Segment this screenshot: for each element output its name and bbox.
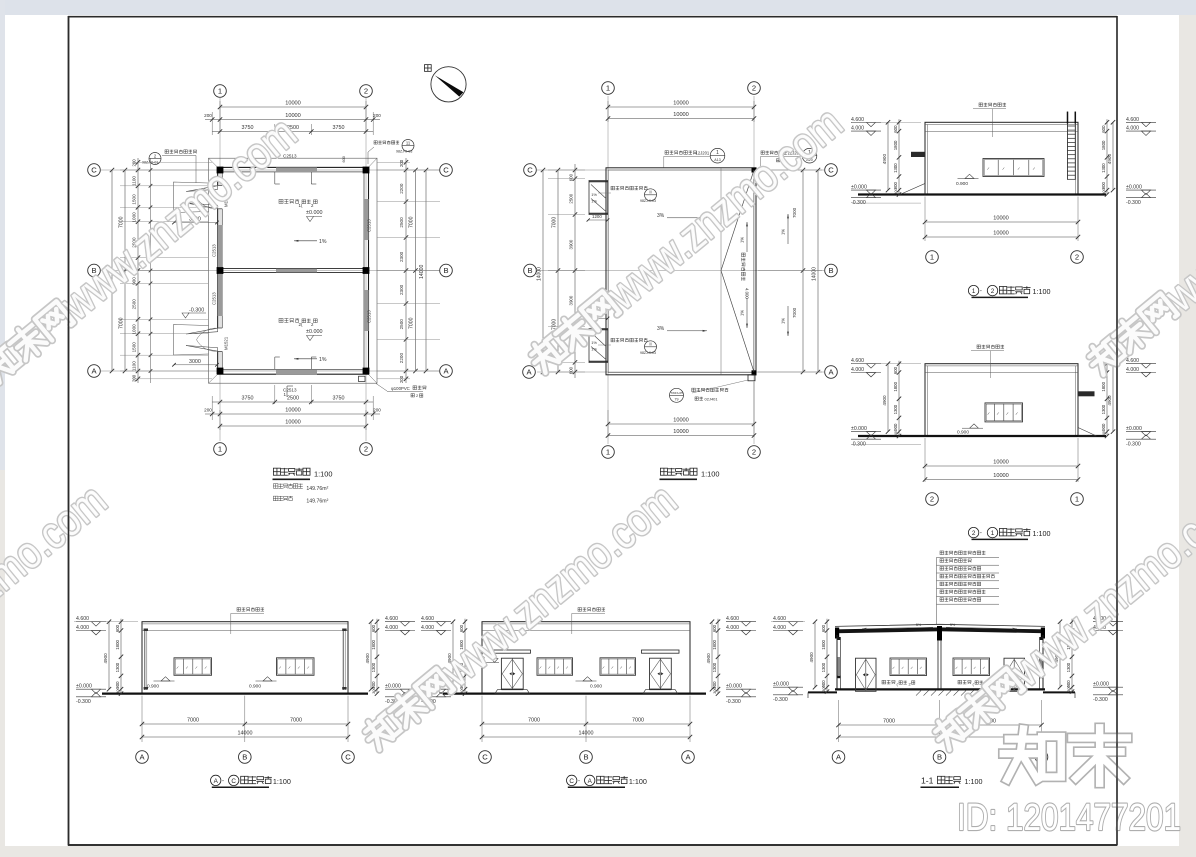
svg-text:4.000: 4.000 bbox=[851, 367, 864, 373]
elev21 sill level 0.900 bbox=[970, 424, 979, 428]
elevCA windows bbox=[537, 658, 573, 676]
floor plan bottom dimension lines bbox=[219, 410, 221, 430]
svg-text:±0.000: ±0.000 bbox=[1126, 426, 1142, 432]
svg-text:300: 300 bbox=[1101, 187, 1106, 194]
svg-text:C2513: C2513 bbox=[367, 219, 372, 232]
vent 1200 dims bbox=[588, 219, 608, 221]
svg-text:200: 200 bbox=[373, 113, 381, 118]
svg-text:φ100PVC: φ100PVC bbox=[391, 386, 410, 391]
svg-text:1:100: 1:100 bbox=[965, 777, 983, 786]
elevAC rain pipes bbox=[144, 630, 146, 690]
svg-text:900: 900 bbox=[1101, 423, 1106, 431]
roof smoke vents (hatched boxes) bbox=[589, 181, 608, 215]
svg-text:C: C bbox=[569, 778, 574, 785]
svg-text:4900: 4900 bbox=[882, 154, 887, 165]
svg-text:14000: 14000 bbox=[812, 267, 818, 281]
svg-text:10000: 10000 bbox=[285, 420, 301, 426]
elev21 bottom dims bbox=[924, 438, 926, 482]
svg-text:±0.000: ±0.000 bbox=[306, 329, 322, 335]
svg-text:4.600: 4.600 bbox=[76, 616, 89, 622]
elevAC bubbles bbox=[136, 751, 149, 764]
svg-text:2: 2 bbox=[972, 530, 976, 537]
svg-text:3750: 3750 bbox=[333, 396, 345, 402]
svg-text:4.000: 4.000 bbox=[1126, 367, 1139, 373]
svg-text:±0.000: ±0.000 bbox=[1093, 682, 1109, 688]
svg-text:7000: 7000 bbox=[792, 207, 797, 218]
svg-text:C: C bbox=[828, 166, 834, 175]
svg-text:1: 1 bbox=[716, 150, 719, 156]
room 1 labels bbox=[279, 199, 299, 203]
section ground extensions bbox=[808, 691, 837, 693]
roof rain outlet corner bbox=[748, 375, 755, 381]
bottom-right PVC pipe note bbox=[376, 384, 387, 392]
svg-text:79: 79 bbox=[675, 398, 679, 402]
svg-text:4900: 4900 bbox=[1107, 395, 1112, 406]
svg-text:7000: 7000 bbox=[792, 307, 797, 318]
section room labels bbox=[882, 680, 895, 684]
floor plan axis lines bbox=[219, 98, 221, 441]
elevAC roof leader note bbox=[237, 608, 264, 612]
section roof construction list bbox=[940, 551, 985, 555]
svg-text:4.000: 4.000 bbox=[745, 288, 750, 299]
watermark row1 middle bbox=[519, 97, 852, 384]
svg-text:2: 2 bbox=[1075, 253, 1079, 262]
svg-text:4.600: 4.600 bbox=[385, 616, 398, 622]
svg-text:10000: 10000 bbox=[673, 418, 689, 424]
svg-text:1%: 1% bbox=[319, 239, 327, 245]
svg-text:600: 600 bbox=[371, 624, 376, 632]
svg-text:1300: 1300 bbox=[821, 662, 826, 672]
columns (black squares) bbox=[217, 167, 224, 174]
svg-text:4900: 4900 bbox=[1107, 154, 1112, 165]
svg-text:3%: 3% bbox=[657, 326, 665, 332]
elev21 roof leader note bbox=[977, 345, 1004, 349]
svg-text:7000: 7000 bbox=[883, 719, 895, 725]
svg-text:4.000: 4.000 bbox=[851, 126, 864, 132]
svg-text:1: 1 bbox=[218, 445, 222, 454]
svg-text:0.900: 0.900 bbox=[249, 683, 261, 689]
watermark row1 right bbox=[1077, 99, 1196, 386]
svg-text:2: 2 bbox=[930, 495, 934, 504]
elevCA building outline bbox=[482, 622, 690, 694]
svg-text:2: 2 bbox=[991, 288, 995, 295]
section windows bbox=[890, 658, 927, 676]
roof access hatch callout (bottom) bbox=[670, 388, 684, 402]
roof left dimension chains bbox=[574, 164, 576, 378]
svg-text:200: 200 bbox=[373, 408, 381, 413]
svg-text:5%: 5% bbox=[950, 623, 956, 627]
svg-text:B: B bbox=[937, 753, 942, 762]
svg-text:3000: 3000 bbox=[189, 359, 201, 365]
svg-text:3900: 3900 bbox=[569, 239, 574, 249]
svg-text:1800: 1800 bbox=[1101, 140, 1106, 150]
svg-text:2200: 2200 bbox=[399, 353, 404, 364]
svg-text:4.600: 4.600 bbox=[773, 616, 786, 622]
watermark row2 left bbox=[0, 474, 116, 761]
svg-text:98ZJ-0-03: 98ZJ-0-03 bbox=[640, 351, 656, 355]
svg-text:2500: 2500 bbox=[399, 217, 404, 228]
svg-text:1800: 1800 bbox=[893, 381, 898, 391]
svg-text:300: 300 bbox=[115, 686, 120, 693]
svg-text:±0.000: ±0.000 bbox=[306, 210, 322, 216]
elevAC 0.900 marks bbox=[161, 677, 170, 681]
svg-text:5%: 5% bbox=[916, 623, 922, 627]
svg-text:600: 600 bbox=[342, 156, 346, 162]
svg-text:3%: 3% bbox=[657, 213, 665, 219]
svg-text:1%: 1% bbox=[591, 340, 597, 345]
svg-text:C: C bbox=[231, 778, 236, 785]
top-right rain callout bbox=[374, 141, 399, 145]
roof right dimension chains bbox=[802, 170, 804, 372]
svg-text:4900: 4900 bbox=[365, 653, 370, 664]
svg-text:4.000: 4.000 bbox=[385, 625, 398, 631]
elevCA door sills bbox=[495, 690, 530, 694]
floor plan axis bubbles bbox=[214, 85, 227, 98]
roof top leader callouts bbox=[665, 151, 697, 155]
svg-text:200: 200 bbox=[399, 159, 404, 167]
svg-text:-0.300: -0.300 bbox=[726, 699, 741, 705]
svg-text:600: 600 bbox=[893, 125, 898, 133]
elev12 building outline bbox=[925, 122, 1078, 194]
svg-text:2500: 2500 bbox=[132, 299, 137, 310]
svg-text:2300: 2300 bbox=[399, 251, 404, 262]
elev21 ground line bbox=[858, 435, 1106, 437]
section underfloor hatch bbox=[916, 691, 921, 696]
svg-text:4.000: 4.000 bbox=[773, 625, 786, 631]
svg-text:1500: 1500 bbox=[132, 342, 137, 353]
elev21 building outline bbox=[925, 364, 1078, 436]
svg-text:10000: 10000 bbox=[673, 112, 689, 118]
svg-text:600: 600 bbox=[1101, 125, 1106, 133]
elev21 title bbox=[968, 527, 978, 537]
svg-text:C: C bbox=[482, 753, 488, 762]
svg-text:-: - bbox=[980, 289, 982, 295]
svg-text:2500: 2500 bbox=[569, 193, 574, 203]
svg-text:10000: 10000 bbox=[285, 408, 301, 414]
elevCA title bbox=[567, 775, 577, 785]
svg-text:14000: 14000 bbox=[238, 731, 253, 737]
svg-text:1-1: 1-1 bbox=[921, 775, 934, 785]
svg-text:10000: 10000 bbox=[285, 101, 301, 107]
svg-text:B: B bbox=[583, 753, 588, 762]
svg-text:1300: 1300 bbox=[893, 163, 898, 173]
svg-text:C: C bbox=[91, 166, 97, 175]
svg-text:1100: 1100 bbox=[132, 361, 137, 371]
elev12 bubbles bbox=[926, 251, 939, 264]
roof bottom dimensions bbox=[607, 410, 609, 437]
svg-text:600: 600 bbox=[569, 366, 574, 374]
svg-text:0.900: 0.900 bbox=[590, 683, 602, 689]
svg-text:0.900: 0.900 bbox=[147, 683, 159, 689]
svg-text:1200: 1200 bbox=[592, 214, 602, 219]
left extension lines bbox=[120, 169, 208, 171]
svg-text:4.600: 4.600 bbox=[851, 117, 864, 123]
svg-text:C2513: C2513 bbox=[212, 244, 217, 257]
svg-text:1300: 1300 bbox=[115, 662, 120, 672]
section bubbles bbox=[832, 751, 845, 764]
svg-text:1: 1 bbox=[218, 87, 222, 96]
svg-text:98ZJ-0-03: 98ZJ-0-03 bbox=[396, 150, 412, 154]
svg-text:2500: 2500 bbox=[287, 396, 299, 402]
section middle wall bbox=[937, 640, 939, 689]
floor plan left dimension chains bbox=[137, 158, 139, 383]
svg-text:-0.300: -0.300 bbox=[1093, 697, 1108, 703]
svg-text:10000: 10000 bbox=[673, 101, 689, 107]
svg-text:300: 300 bbox=[1066, 684, 1071, 691]
floor plan title bbox=[273, 468, 310, 476]
section walls bbox=[836, 635, 838, 689]
svg-text:200: 200 bbox=[132, 374, 137, 382]
svg-text:10000: 10000 bbox=[993, 473, 1009, 479]
svg-text:4.600: 4.600 bbox=[1126, 358, 1139, 364]
svg-text:14000: 14000 bbox=[537, 267, 543, 281]
roof outline with parapet double line bbox=[606, 168, 756, 375]
svg-text:4900: 4900 bbox=[706, 653, 711, 664]
elev12 left canopy bbox=[911, 152, 925, 157]
svg-text:1%: 1% bbox=[319, 357, 327, 363]
svg-text:2: 2 bbox=[752, 448, 756, 457]
svg-text:1300: 1300 bbox=[1101, 404, 1106, 414]
roof structural level note (rotated) bbox=[741, 253, 745, 281]
svg-text:±0.000: ±0.000 bbox=[726, 684, 742, 690]
elev12 sill level 0.900 bbox=[965, 174, 974, 178]
svg-text:10000: 10000 bbox=[993, 231, 1009, 237]
svg-text:7000: 7000 bbox=[119, 216, 125, 228]
svg-text:-: - bbox=[980, 531, 982, 537]
svg-text:300: 300 bbox=[893, 187, 898, 194]
svg-text:600: 600 bbox=[569, 173, 574, 181]
svg-text:1100: 1100 bbox=[132, 176, 137, 186]
roof plan axis lines bbox=[607, 96, 609, 444]
drawing frame border bbox=[68, 16, 70, 846]
svg-text:98ZJ-0-03: 98ZJ-0-03 bbox=[640, 199, 656, 203]
svg-text:200: 200 bbox=[204, 408, 212, 413]
floor plan outer walls (double line) bbox=[218, 167, 369, 374]
elevCA 0.900 mark bbox=[583, 677, 592, 681]
svg-text:1:100: 1:100 bbox=[1033, 529, 1051, 538]
svg-text:C2513: C2513 bbox=[367, 310, 372, 323]
elevCA door canopies bbox=[493, 650, 531, 653]
svg-text:3900: 3900 bbox=[569, 295, 574, 305]
roof slope 1% vertical arrows bbox=[746, 222, 748, 252]
znzmo logo (bottom right) bbox=[1003, 729, 1061, 779]
svg-text:200: 200 bbox=[132, 159, 137, 167]
svg-text:TWFb-65: TWFb-65 bbox=[670, 391, 683, 395]
roof axis bubbles bbox=[602, 82, 615, 95]
svg-text:1300: 1300 bbox=[893, 404, 898, 414]
top-left detail callout bbox=[149, 153, 161, 165]
svg-text:2500: 2500 bbox=[399, 319, 404, 330]
svg-text:1000: 1000 bbox=[132, 324, 137, 335]
elev21 base ramp (right side) bbox=[1078, 428, 1097, 437]
svg-text:-0.300: -0.300 bbox=[851, 200, 866, 206]
svg-text:600: 600 bbox=[115, 624, 120, 632]
window centre bracket marks top/bottom bbox=[274, 172, 276, 184]
frame lines redrawn over watermark bbox=[1116, 16, 1118, 846]
svg-text:1800: 1800 bbox=[115, 640, 120, 650]
svg-text:-0.300: -0.300 bbox=[76, 699, 91, 705]
svg-text:1: 1 bbox=[991, 530, 995, 537]
svg-text:900: 900 bbox=[893, 182, 898, 190]
svg-text:1800: 1800 bbox=[821, 640, 826, 650]
elevAC ground line bbox=[102, 692, 368, 694]
door openings with leaves (M1521) left wall bbox=[174, 182, 209, 213]
svg-text:1%: 1% bbox=[591, 199, 597, 204]
svg-text:4.600: 4.600 bbox=[421, 616, 434, 622]
svg-text:2: 2 bbox=[752, 84, 756, 93]
svg-text:149.76m²: 149.76m² bbox=[306, 498, 328, 504]
section floor line bbox=[835, 688, 1045, 690]
svg-text:600: 600 bbox=[893, 366, 898, 374]
svg-text:1300: 1300 bbox=[1101, 163, 1106, 173]
svg-text:-: - bbox=[578, 778, 580, 784]
svg-text:±0.000: ±0.000 bbox=[851, 426, 867, 432]
elev12 ladder bbox=[1067, 112, 1069, 180]
svg-text:C: C bbox=[345, 753, 351, 762]
elevAC bottom dims bbox=[141, 696, 143, 742]
roof corner squares bbox=[752, 168, 757, 173]
svg-text:300: 300 bbox=[821, 684, 826, 691]
svg-text:7000: 7000 bbox=[119, 317, 125, 329]
svg-text:14000: 14000 bbox=[419, 264, 425, 279]
svg-text:II: II bbox=[649, 190, 651, 195]
svg-text:-0.300: -0.300 bbox=[189, 308, 204, 314]
svg-text:7000: 7000 bbox=[409, 317, 415, 329]
svg-text:±0.000: ±0.000 bbox=[385, 684, 401, 690]
right extension lines bbox=[377, 169, 440, 171]
svg-text:300: 300 bbox=[1101, 429, 1106, 436]
svg-text:2200: 2200 bbox=[399, 183, 404, 194]
svg-text:2: 2 bbox=[364, 445, 368, 454]
elevCA ground line bbox=[443, 692, 706, 694]
svg-text:1: 1 bbox=[1075, 495, 1079, 504]
svg-text:7000: 7000 bbox=[409, 216, 415, 228]
watermark row2 right bbox=[923, 474, 1196, 761]
watermark row2 middle bbox=[353, 474, 686, 761]
elev21 right canopy bbox=[1078, 391, 1095, 396]
svg-text:4.000: 4.000 bbox=[421, 625, 434, 631]
svg-text:1800: 1800 bbox=[893, 140, 898, 150]
svg-text:2300: 2300 bbox=[399, 284, 404, 295]
svg-text:300: 300 bbox=[712, 686, 717, 693]
svg-text:10000: 10000 bbox=[993, 216, 1009, 222]
north arrow bbox=[431, 67, 466, 102]
svg-text:B: B bbox=[828, 266, 833, 275]
svg-text:1:100: 1:100 bbox=[629, 777, 647, 786]
elevCA bubbles bbox=[479, 751, 492, 764]
svg-text:B: B bbox=[527, 266, 532, 275]
elev12 ground line bbox=[858, 193, 1106, 195]
svg-text:600: 600 bbox=[712, 624, 717, 632]
svg-text:4.000: 4.000 bbox=[1126, 126, 1139, 132]
svg-text:10000: 10000 bbox=[285, 113, 301, 119]
elevAC title bbox=[211, 775, 221, 785]
section roof slab (cambered, thick) bbox=[835, 624, 1045, 626]
svg-text:7000: 7000 bbox=[552, 217, 558, 228]
svg-text:0.900: 0.900 bbox=[957, 429, 969, 435]
svg-text:1800: 1800 bbox=[1101, 381, 1106, 391]
svg-text:B: B bbox=[242, 753, 247, 762]
svg-text:4900: 4900 bbox=[103, 653, 108, 664]
svg-text:1: 1 bbox=[606, 84, 610, 93]
svg-text:C2513: C2513 bbox=[212, 292, 217, 305]
elev21 window bbox=[985, 403, 1023, 422]
elevAC building outline bbox=[142, 622, 348, 694]
svg-text:11: 11 bbox=[406, 140, 411, 145]
svg-text:300: 300 bbox=[893, 429, 898, 436]
svg-text:900: 900 bbox=[1101, 182, 1106, 190]
svg-text:-0.300: -0.300 bbox=[1126, 441, 1141, 447]
svg-text:4.000: 4.000 bbox=[76, 625, 89, 631]
svg-text:1800: 1800 bbox=[712, 640, 717, 650]
svg-text:-0.300: -0.300 bbox=[1126, 200, 1141, 206]
svg-text:4900: 4900 bbox=[809, 652, 814, 663]
elev12 title bbox=[968, 285, 978, 295]
svg-text:2: 2 bbox=[364, 87, 368, 96]
svg-text:149.76m²: 149.76m² bbox=[306, 486, 328, 492]
svg-text:1300: 1300 bbox=[712, 662, 717, 672]
3000 door dims bbox=[174, 222, 217, 224]
svg-text:12J201: 12J201 bbox=[696, 151, 710, 156]
svg-text:1%: 1% bbox=[781, 318, 786, 324]
door openings cut in wall bbox=[217, 185, 224, 208]
svg-text:B: B bbox=[443, 266, 448, 275]
svg-text:10000: 10000 bbox=[993, 460, 1009, 466]
elevAC windows bbox=[174, 658, 212, 676]
svg-text:4.000: 4.000 bbox=[726, 625, 739, 631]
svg-text:4.600: 4.600 bbox=[726, 616, 739, 622]
svg-text:1:100: 1:100 bbox=[314, 469, 333, 478]
svg-text:1:100: 1:100 bbox=[273, 777, 291, 786]
svg-text:7000: 7000 bbox=[528, 718, 540, 724]
svg-text:1: 1 bbox=[930, 253, 934, 262]
svg-text:1%: 1% bbox=[740, 237, 745, 243]
svg-text:1%: 1% bbox=[591, 192, 597, 197]
svg-text:900: 900 bbox=[893, 423, 898, 431]
svg-text:M1521: M1521 bbox=[224, 336, 229, 350]
svg-text:10000: 10000 bbox=[673, 429, 689, 435]
watermark row1 left bbox=[0, 107, 306, 394]
svg-text:02J401: 02J401 bbox=[705, 397, 719, 402]
svg-text:3750: 3750 bbox=[333, 125, 345, 131]
svg-text:1300: 1300 bbox=[371, 662, 376, 672]
svg-text:±0.000: ±0.000 bbox=[1126, 185, 1142, 191]
svg-text:600: 600 bbox=[821, 624, 826, 632]
svg-text:4900: 4900 bbox=[882, 395, 887, 406]
elev12 roof leader note bbox=[979, 103, 1006, 107]
svg-text:1800: 1800 bbox=[371, 640, 376, 650]
roof ridge / slope diagonals bbox=[721, 170, 754, 271]
svg-text:C: C bbox=[527, 166, 533, 175]
section wall window voids (gray) bbox=[838, 657, 841, 676]
floor plan top dimension lines bbox=[219, 101, 221, 132]
section roof end/mid blobs bbox=[835, 628, 839, 639]
svg-text:±0.000: ±0.000 bbox=[76, 684, 92, 690]
svg-text:1%: 1% bbox=[591, 347, 597, 352]
svg-text:4.600: 4.600 bbox=[851, 358, 864, 364]
svg-text:300: 300 bbox=[371, 686, 376, 693]
svg-text:4.600: 4.600 bbox=[1126, 117, 1139, 123]
roof plan title bbox=[660, 468, 697, 476]
floor plan right dimension chains bbox=[405, 158, 407, 383]
elev21 bubbles bbox=[926, 493, 939, 506]
svg-text:200: 200 bbox=[204, 113, 212, 118]
svg-text:-: - bbox=[222, 778, 224, 784]
svg-text:1%: 1% bbox=[781, 229, 786, 235]
section doors bbox=[856, 658, 877, 691]
svg-text:1: 1 bbox=[606, 448, 610, 457]
svg-text:1500: 1500 bbox=[132, 194, 137, 205]
